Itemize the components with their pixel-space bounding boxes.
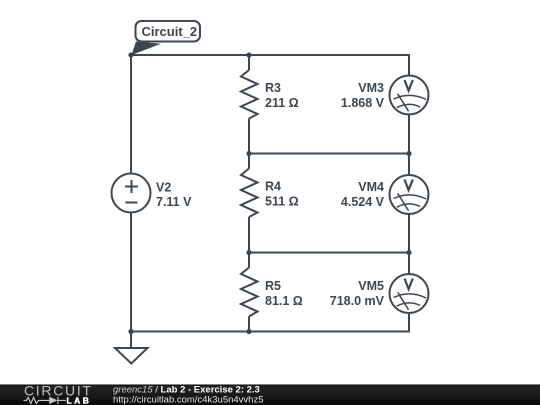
wire top horizontal net A — [131, 54, 410, 56]
wire middle horizontal net B — [249, 153, 409, 155]
node dot R4/R5 junction — [246, 250, 251, 255]
svg-text:81.1 Ω: 81.1 Ω — [265, 294, 303, 308]
label V2 value — [156, 181, 192, 210]
node dot R3 top — [246, 52, 251, 57]
label R5 value — [265, 279, 303, 308]
node dot VM4/VM5 junction — [406, 250, 411, 255]
wire right vertical VM5 leads — [408, 253, 410, 275]
svg-text:4.524 V: 4.524 V — [341, 195, 385, 209]
svg-text:R4: R4 — [265, 180, 281, 194]
voltmeter VM5 — [390, 274, 429, 313]
svg-text:LAB: LAB — [67, 396, 92, 405]
svg-text:7.11 V: 7.11 V — [156, 195, 192, 209]
wire left vertical V2 bottom lead — [130, 213, 132, 349]
ground — [115, 348, 148, 364]
label R3 value — [265, 81, 299, 110]
svg-text:1.868 V: 1.868 V — [341, 96, 385, 110]
wire middle horizontal net C — [249, 252, 409, 254]
voltmeter VM3 — [390, 76, 429, 115]
node label Circuit_2 pointer — [132, 42, 162, 56]
svg-text:VM3: VM3 — [358, 81, 384, 95]
label VM3 value — [341, 81, 385, 110]
wire bottom horizontal ground net — [131, 331, 410, 333]
wire right vertical VM3 leads — [408, 54, 410, 75]
svg-text:511 Ω: 511 Ω — [265, 195, 299, 209]
wire left vertical V2 top lead — [130, 55, 132, 173]
svg-text:V2: V2 — [156, 181, 171, 195]
node dot top-left — [128, 52, 133, 57]
svg-text:VM4: VM4 — [358, 180, 384, 194]
svg-text:http://circuitlab.com/c4k3u5n4: http://circuitlab.com/c4k3u5n4vvhz5 — [113, 395, 264, 405]
svg-text:718.0 mV: 718.0 mV — [330, 294, 385, 308]
label VM4 value — [341, 180, 385, 209]
svg-text:R5: R5 — [265, 279, 281, 293]
node label Circuit_2 box — [136, 21, 201, 42]
voltmeter VM4 — [390, 175, 429, 214]
node dot VM3/VM4 junction — [406, 151, 411, 156]
svg-text:Circuit_2: Circuit_2 — [142, 24, 198, 39]
node dot R5 bottom — [246, 329, 251, 334]
svg-text:R3: R3 — [265, 81, 281, 95]
resistor R4 — [241, 154, 258, 253]
footer logo diode — [49, 397, 57, 404]
voltage source V2 — [112, 174, 151, 213]
label R4 value — [265, 180, 299, 209]
svg-text:VM5: VM5 — [358, 279, 384, 293]
resistor R3 — [241, 55, 258, 154]
wire right vertical VM4 leads — [408, 154, 410, 176]
label VM5 value — [330, 279, 385, 308]
footer bar — [0, 385, 540, 405]
svg-text:211 Ω: 211 Ω — [265, 96, 299, 110]
node dot R3/R4 junction — [246, 151, 251, 156]
footer logo waveform wire — [24, 397, 67, 404]
resistor R5 — [241, 253, 258, 332]
node dot ground-left — [128, 329, 133, 334]
